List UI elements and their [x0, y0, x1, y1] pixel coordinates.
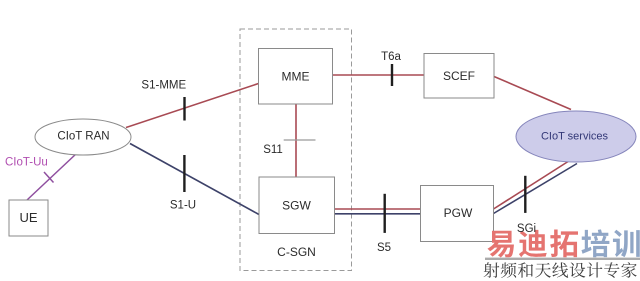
box MME	[259, 49, 333, 105]
watermark separator line	[485, 258, 640, 260]
box SCEF	[424, 54, 494, 99]
svg-text:S5: S5	[377, 242, 391, 254]
ellipse CIoT RAN	[35, 119, 131, 155]
tick S1-MME	[183, 97, 185, 121]
svg-text:CIoT RAN: CIoT RAN	[57, 131, 109, 143]
svg-text:T6a: T6a	[381, 51, 401, 63]
wire S11 (MME to SGW, red vertical)	[295, 104, 297, 177]
svg-text:MME: MME	[282, 70, 310, 84]
svg-text:CIoT-Uu: CIoT-Uu	[5, 157, 48, 169]
wire CIoT-Uu (UE to CIoT RAN, purple)	[27, 154, 77, 201]
tick S5	[384, 194, 386, 233]
watermark logo text (red+blue CJK)	[487, 229, 639, 257]
svg-text:SCEF: SCEF	[443, 69, 475, 83]
svg-text:S11: S11	[263, 144, 283, 156]
tick S11 (gray horizontal)	[284, 139, 316, 141]
svg-text:UE: UE	[19, 210, 37, 225]
wire S1-U (CIoT RAN to SGW, blue)	[130, 144, 259, 215]
wire S5 red (SGW to PGW)	[335, 208, 421, 210]
svg-text:S1-MME: S1-MME	[141, 80, 186, 92]
wire SGi blue (PGW to CIoT services)	[494, 164, 578, 214]
dashed group box C-SGN	[240, 29, 352, 271]
tick SGi	[524, 176, 526, 213]
svg-text:C-SGN: C-SGN	[277, 245, 316, 259]
tick T6a	[391, 64, 393, 86]
wire SGi red (PGW to CIoT services)	[494, 159, 573, 209]
tick S1-U	[183, 155, 185, 192]
svg-text:CIoT services: CIoT services	[541, 131, 609, 143]
svg-text:PGW: PGW	[444, 206, 473, 220]
svg-text:S1-U: S1-U	[170, 200, 196, 212]
box SGW	[259, 177, 335, 234]
svg-text:SGW: SGW	[282, 199, 311, 213]
ellipse CIoT services	[516, 111, 636, 162]
svg-text:SGi: SGi	[517, 223, 536, 235]
wire SCEF to CIoT services (red)	[494, 77, 571, 110]
wire S1-MME (CIoT RAN to MME, red)	[126, 84, 259, 128]
tick CIoT-Uu (purple slash)	[44, 172, 54, 183]
wire T6a (MME to SCEF, red)	[333, 74, 425, 76]
watermark tagline (serif CJK)	[484, 262, 637, 278]
box UE	[9, 200, 48, 236]
box PGW	[421, 186, 494, 242]
wire S5 blue (SGW to PGW)	[335, 213, 421, 215]
